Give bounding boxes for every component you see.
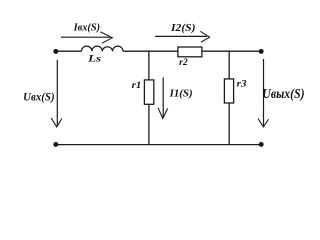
wire: r3 to bottom wire <box>228 103 230 145</box>
svg-text:Ls: Ls <box>87 55 102 65</box>
svg-text:Uвх(S): Uвх(S) <box>23 90 54 104</box>
current arrow I2(S) <box>155 31 210 42</box>
resistor r3 <box>224 79 233 103</box>
wire: bottom rail <box>56 144 261 146</box>
svg-text:r1: r1 <box>132 81 142 91</box>
wire: r1 branch from top wire <box>148 51 150 80</box>
voltage arrow Uvx(S) <box>51 60 62 127</box>
svg-text:I1(S): I1(S) <box>169 88 193 100</box>
svg-text:Uвых(S): Uвых(S) <box>262 86 304 101</box>
svg-text:r3: r3 <box>237 79 247 89</box>
wire: r3 branch from top wire <box>228 51 230 79</box>
svg-text:r2: r2 <box>179 58 188 68</box>
inductor Ls <box>82 46 124 51</box>
node: output terminal bottom-right <box>259 142 264 147</box>
voltage arrow Uvyx(S) <box>258 59 269 127</box>
node: input terminal bottom-left <box>53 142 58 147</box>
node: output terminal top-right <box>259 49 264 54</box>
svg-text:Iвх(S): Iвх(S) <box>73 22 101 33</box>
wire: r1 to bottom wire <box>148 104 150 144</box>
wire: top-left terminal to inductor <box>58 50 82 52</box>
svg-text:I2(S): I2(S) <box>170 23 196 34</box>
wire: inductor to r2 (through r1 junction) <box>123 50 178 52</box>
wire: r2 to top-right terminal (through r3 junction) <box>202 50 261 52</box>
current arrow I1(S) <box>158 78 168 119</box>
current arrow Ivx(S) <box>61 32 112 43</box>
resistor r1 <box>144 80 153 104</box>
resistor r2 <box>178 47 202 57</box>
node: input terminal top-left <box>53 49 58 54</box>
